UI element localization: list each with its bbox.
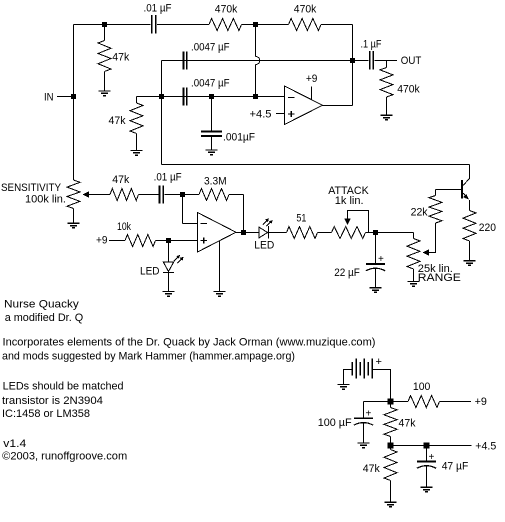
svg-text:470k: 470k [215, 4, 238, 16]
svg-text:.01 µF: .01 µF [144, 3, 172, 15]
svg-text:.001µF: .001µF [223, 132, 255, 144]
wire 220 bottom stub [469, 241, 471, 261]
wire 47k lower to ground [390, 481, 392, 503]
wire top between .01uF cap and 470k [157, 24, 209, 26]
wire input top horizontal y=24 left segment [74, 24, 151, 26]
svg-text:+4.5: +4.5 [250, 108, 272, 120]
wire 47k divider lower stub [390, 446, 392, 450]
svg-text:100: 100 [413, 381, 431, 393]
node twin-T right to op-amp [253, 94, 258, 99]
resistor 10k bias [125, 235, 156, 247]
resistor R 47k input to ground [98, 41, 111, 72]
capacitor 22 uF electrolytic [366, 264, 385, 271]
svg-text:100k lin.: 100k lin. [25, 193, 66, 205]
capacitor .01 uF input [152, 15, 156, 34]
ground of LED D1 [163, 292, 175, 297]
resistor 220 emitter [463, 211, 476, 242]
node +9 supply [388, 399, 394, 405]
wire ATTACK to 25k corner [366, 232, 414, 234]
resistor 51 [287, 227, 318, 239]
ground of 22uF [370, 288, 382, 293]
svg-text:OUT: OUT [401, 55, 422, 67]
node IN junction [71, 94, 76, 99]
wire 10k to non-inverting input [156, 240, 198, 242]
svg-text:IN: IN [44, 91, 54, 103]
svg-text:3.3M: 3.3M [204, 175, 227, 187]
LED D1 anode wire [168, 241, 170, 263]
RANGE pot wiper arrow [423, 249, 430, 256]
wire filter output to .1uF cap [353, 60, 369, 62]
wire inverting input stub [183, 223, 198, 225]
resistor 47k divider lower [384, 450, 397, 481]
wire 470k output pulldown top stub [386, 61, 388, 68]
wire 51 to ATTACK pot [318, 232, 332, 234]
node op-amp U1b inverting input junction [180, 192, 185, 197]
wire node down to inverting input [182, 195, 184, 224]
svg-text:220: 220 [479, 222, 496, 234]
ground of op-amp U1b [214, 292, 226, 297]
svg-text:a modified Dr. Q: a modified Dr. Q [5, 312, 84, 324]
svg-text:22k: 22k [411, 207, 428, 219]
svg-text:100 µF: 100 µF [318, 417, 352, 429]
wire LED D2 to 51 resistor [269, 232, 287, 234]
node 22uF junction [373, 230, 378, 235]
wire node to 3.3M [183, 194, 200, 196]
node input top-left junction [102, 22, 107, 27]
resistor 47k to op-amp U1b [110, 189, 139, 201]
resistor 22k [429, 196, 442, 224]
op-amp U1a filter [285, 86, 323, 125]
svg-text:RANGE: RANGE [418, 272, 461, 284]
ground of battery [338, 385, 350, 390]
svg-text:22 µF: 22 µF [334, 267, 360, 279]
svg-text:10k: 10k [117, 221, 131, 233]
svg-text:+9: +9 [306, 73, 318, 85]
svg-text:IC:1458 or LM358: IC:1458 or LM358 [2, 408, 90, 420]
node top center [253, 22, 258, 27]
wire transistor base lead [436, 189, 463, 191]
svg-text:LED: LED [140, 266, 160, 278]
wire 22uF bottom stub [375, 268, 377, 288]
wire +9 node to 100uF [364, 401, 391, 403]
wire 47k R1 top stub [104, 25, 106, 41]
LED D2 optocoupler lamp [259, 226, 269, 239]
wire 100 to +9 label [440, 401, 472, 403]
wire 47k shunt bottom stub [136, 134, 138, 151]
wire 100uF bottom stub [363, 422, 365, 443]
svg-text:.1 µF: .1 µF [361, 38, 382, 50]
wire ATTACK wiper loop [348, 211, 369, 233]
svg-text:.0047 µF: .0047 µF [191, 42, 230, 54]
node output of filter [350, 58, 355, 63]
wire .001uF bottom stub [211, 137, 213, 151]
svg-text:+9: +9 [96, 235, 108, 247]
wire top right segment to corner [321, 24, 353, 26]
op-amp U1a +4.5 input stub [276, 113, 285, 115]
wire sensitivity pot bottom stub [73, 209, 75, 224]
wire top between 470k resistors [242, 24, 289, 26]
svg-text:Nurse Quacky: Nurse Quacky [4, 299, 79, 311]
svg-text:Incorporates elements of the D: Incorporates elements of the Dr. Quack b… [3, 337, 376, 349]
op-amp U1a +9 supply pin [311, 87, 313, 100]
wire left vertical from top wire down to IN node and sensitivity pot [73, 25, 75, 181]
wire +9 to 10k [109, 240, 125, 242]
node LED1 junction [166, 238, 171, 243]
ground of twin-T 47k [131, 151, 143, 156]
ground of output 470k [381, 115, 393, 120]
svg-text:+4.5: +4.5 [475, 441, 496, 453]
wire 3.3M feedback corner down to output node [243, 195, 245, 233]
node op-amp U1b output [241, 230, 246, 235]
capacitor 47 uF electrolytic [417, 462, 436, 469]
resistor 470k second feedback [289, 19, 322, 31]
transistor Q1 2N3904 [462, 179, 469, 200]
potentiometer ATTACK 1k body [332, 227, 366, 239]
svg-text:470k: 470k [294, 4, 317, 16]
wire hop over horizontal wire [256, 57, 260, 65]
battery B1 9V [352, 359, 372, 379]
wire 47uF top stub [426, 446, 428, 462]
ground of divider [385, 502, 397, 507]
ground of 47uF [421, 487, 433, 492]
wire 47k shunt top stub [136, 97, 138, 104]
wire twin-T upper branch y=60 [162, 60, 353, 62]
wire op-amp U1a output [323, 105, 353, 107]
wire .001uF top stub [211, 97, 213, 132]
wire 47k upper to +4.5 node [390, 437, 392, 446]
wire 470k pulldown bottom stub [386, 97, 388, 115]
svg-text:.0047 µF: .0047 µF [191, 78, 230, 90]
svg-text:LEDs should be matched: LEDs should be matched [3, 380, 124, 392]
svg-text:LED: LED [254, 239, 274, 251]
ATTACK pot wiper arrow [344, 219, 351, 226]
svg-text:47k: 47k [399, 418, 416, 430]
resistor 47k twin-T shunt [130, 103, 143, 134]
node +4.5 [388, 443, 394, 449]
wire .01uF to node [164, 194, 182, 196]
LED D2 light arrows [263, 218, 273, 226]
wire op-amp U1b ground pin [219, 241, 221, 292]
resistor 470k output pulldown [380, 68, 393, 98]
svg-text:47k: 47k [363, 463, 380, 475]
wire IN stub [57, 96, 74, 98]
svg-text:©2003, runoffgroove.com: ©2003, runoffgroove.com [2, 451, 127, 463]
node twin-T middle .001uF [209, 94, 214, 99]
svg-text:+: + [429, 452, 435, 463]
ground of .001uF [206, 150, 218, 155]
capacitor .0047 uF lower [183, 88, 186, 106]
svg-text:47 µF: 47 µF [442, 461, 469, 473]
resistor 47k divider upper [384, 408, 397, 437]
wire vertical from top node down with hop start [255, 25, 257, 57]
wire transistor emitter to 220 [469, 200, 471, 211]
wire long feedback from twin-T to transistor collector [161, 97, 163, 165]
svg-text:51: 51 [296, 213, 306, 225]
wire 47k R1 bottom stub [104, 72, 106, 92]
wire 22uF top stub [375, 233, 377, 265]
wire 47uF bottom stub [426, 466, 428, 488]
wire 25k pot bottom stub [413, 269, 415, 282]
svg-text:1k lin.: 1k lin. [335, 195, 364, 207]
wire .1uF to OUT [374, 60, 397, 62]
wire 100uF top stub [363, 402, 365, 419]
svg-text:v1.4: v1.4 [3, 438, 26, 450]
capacitor .01 uF second [159, 186, 163, 204]
wire 47k divider upper stub [390, 402, 392, 408]
wire 25k pot top stub [413, 233, 415, 239]
wire vertical below hop to lower twin-T node [255, 65, 257, 97]
wire twin-T upper left corner vertical [161, 61, 163, 97]
node twin-T left [159, 94, 164, 99]
ground of sensitivity pot [68, 223, 80, 228]
svg-text:transistor is 2N3904: transistor is 2N3904 [2, 395, 103, 407]
node 47uF junction [424, 443, 430, 449]
wire twin-T lower branch y=96.5 [137, 96, 285, 98]
svg-text:+: + [376, 356, 382, 368]
LED D1 bias diode [163, 262, 174, 273]
wire +4.5 node to label [391, 445, 472, 447]
ground of input 47k [99, 91, 111, 96]
resistor 100 supply filter [408, 396, 440, 408]
capacitor 100 uF electrolytic [354, 418, 373, 425]
wire right vertical corner down to output node [352, 25, 354, 61]
svg-text:SENSITIVITY: SENSITIVITY [1, 182, 62, 194]
wire 22k top stub [435, 190, 437, 196]
svg-text:470k: 470k [397, 84, 420, 96]
resistor 470k first [209, 19, 242, 31]
wire 25k wiper to 22k [428, 223, 436, 253]
capacitor .1 uF output [370, 51, 374, 70]
wire op-amp U1a output up to node [352, 61, 354, 106]
svg-text:+: + [378, 254, 384, 265]
wire battery positive to +9 node [372, 370, 390, 402]
LED D1 light arrows [174, 255, 184, 263]
wire battery negative to ground [344, 370, 353, 385]
ground of 25k pot [408, 282, 420, 287]
ground of 100uF [358, 443, 370, 448]
svg-text:47k: 47k [112, 174, 129, 186]
wire 47k to .01uF [139, 194, 159, 196]
capacitor .0047 uF upper [183, 52, 186, 70]
wire wiper to 47k [88, 194, 111, 196]
wire +9 node to 100 resistor [391, 401, 409, 403]
svg-text:.01 µF: .01 µF [154, 172, 182, 184]
LED D1 cathode wire [168, 273, 170, 292]
op-amp U1b detector [198, 213, 237, 253]
potentiometer SENSITIVITY 100k body [67, 180, 80, 209]
svg-text:and mods suggested by Mark Ham: and mods suggested by Mark Hammer (hamme… [2, 350, 295, 362]
wire op-amp U1b output to LED D2 [236, 232, 259, 234]
ground of 220 [464, 261, 476, 266]
sensitivity pot wiper arrow [83, 191, 90, 198]
svg-text:+9: +9 [475, 396, 487, 408]
wire 3.3M to corner [229, 194, 244, 196]
svg-text:47k: 47k [112, 52, 129, 64]
resistor 3.3M feedback [199, 189, 229, 201]
svg-text:+: + [366, 409, 372, 420]
svg-text:47k: 47k [109, 115, 126, 127]
capacitor .001 uF twin-T [201, 132, 222, 136]
potentiometer RANGE 25k body [407, 239, 420, 270]
